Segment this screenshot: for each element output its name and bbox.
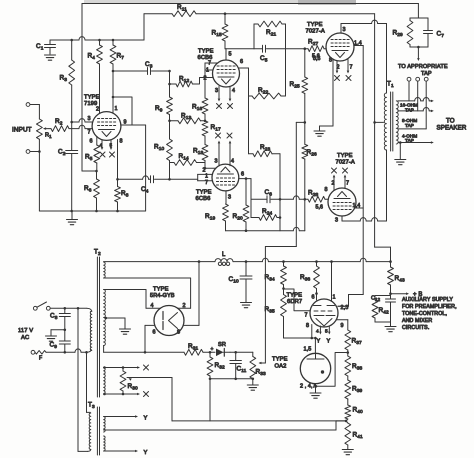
wire grid stubs 6CB6 (205, 63, 218, 98)
resistor R12 (170, 78, 214, 87)
wire feedback vertical (82, 4, 97, 172)
resistor R4 (97, 40, 103, 113)
svg-text:1: 1 (206, 68, 209, 74)
wire screen line (338, 46, 363, 307)
resistor R7 (110, 40, 116, 113)
wire screen supply rail (144, 13, 375, 15)
node feedback-cathode junction (95, 170, 98, 173)
svg-text:Y: Y (317, 339, 321, 345)
wire pin8 6DR7 (311, 325, 313, 339)
svg-text:TONE-CONTROL,: TONE-CONTROL, (402, 311, 447, 317)
resistor R13 (170, 118, 206, 124)
svg-text:7: 7 (305, 313, 308, 319)
pin 2 label (337, 65, 340, 71)
X mark (217, 104, 222, 109)
pin 1 label (333, 295, 336, 301)
heater arrows 6CB6 upper (218, 87, 232, 102)
node C11 top (234, 351, 237, 354)
wire screen pins 1 4 (354, 45, 363, 47)
label R39 (352, 386, 362, 395)
wire aux B arrow (391, 292, 410, 295)
svg-text:6: 6 (241, 172, 244, 178)
wire cathode rail (226, 227, 305, 230)
capacitor C9 (59, 330, 70, 353)
svg-text:6CB6: 6CB6 (196, 196, 211, 202)
label R33 (256, 369, 266, 378)
node C10 top (245, 260, 248, 263)
resistor R15 (222, 14, 228, 49)
svg-text:TYPE: TYPE (198, 49, 214, 55)
pin 8 label (120, 139, 123, 145)
wire hum to rail (171, 378, 173, 421)
label R34 (265, 274, 275, 283)
label pins 5 6 lower (313, 56, 321, 62)
svg-text:TAP: TAP (421, 71, 432, 77)
node R20 top (245, 177, 248, 180)
resistor R10 (167, 121, 173, 180)
svg-text:CIRCUITS.: CIRCUITS. (402, 325, 429, 331)
wire plate lower 7027 (342, 150, 387, 221)
transformer T1 secondary (396, 101, 398, 144)
svg-text:7: 7 (350, 65, 353, 71)
wire B+ vertical (375, 14, 391, 262)
pin 8 label (325, 187, 328, 193)
label SR (218, 342, 226, 348)
heater pin 5 arrow (110, 140, 113, 150)
svg-text:7: 7 (346, 181, 349, 187)
capacitor C11 (230, 352, 242, 379)
label C4 (141, 186, 149, 195)
label R8 (121, 190, 129, 199)
node R24 right (279, 216, 282, 219)
resistor R18 (202, 145, 208, 169)
pin 5 stub (225, 49, 227, 60)
wire OA2 return (316, 353, 348, 387)
transformer T2 primary (90, 311, 92, 351)
label R4 (88, 53, 96, 62)
tube V4 7027-A (326, 33, 354, 61)
node C9 bottom (64, 351, 67, 354)
pin 7 label (350, 65, 353, 71)
svg-text:3: 3 (88, 116, 91, 122)
svg-text:3: 3 (215, 159, 218, 165)
node T1 center tap (373, 121, 376, 124)
pin 4 label (232, 88, 235, 94)
node T3 feed top (77, 307, 80, 310)
resistor R3 (69, 40, 75, 122)
label TO SPEAKER (437, 117, 467, 131)
svg-text:Y: Y (144, 416, 148, 422)
resistor R24 (251, 215, 280, 221)
wire T3 mid riser merge (336, 420, 346, 422)
wire HV top to pin4 (104, 290, 161, 309)
svg-text:2: 2 (183, 303, 186, 309)
label R1 (45, 133, 52, 140)
resistor R1 potentiometer (37, 105, 43, 212)
resistor R9 (167, 71, 173, 121)
label T3 (88, 402, 95, 411)
label pins 1 4 (354, 41, 362, 47)
wire center tap (375, 121, 384, 123)
node HV center tap (105, 317, 108, 320)
label pins 5 6 (312, 54, 320, 60)
label R18 (193, 148, 203, 157)
node R12 tap (168, 83, 171, 86)
Y mark (144, 416, 148, 422)
svg-text:TYPE: TYPE (84, 95, 100, 101)
wire screen pins 1 4 lower (355, 207, 364, 209)
pin 8 label (329, 58, 332, 64)
wire R22-R23 column (248, 96, 250, 154)
pin 6 label (90, 139, 93, 145)
ground R41 (342, 450, 353, 455)
node R4 top (98, 39, 101, 42)
svg-text:8: 8 (329, 58, 332, 64)
capacitor C1 (45, 40, 56, 54)
resistor R29 (407, 18, 413, 47)
pin 1 label (206, 68, 209, 74)
node R8 top (116, 178, 119, 181)
terminal tap 3 (424, 77, 428, 129)
wire R21C5 left (253, 24, 255, 49)
wire C6 to R28 (280, 196, 305, 199)
pin 7 label (305, 313, 308, 319)
resistor R2 (49, 125, 92, 131)
resistor R35 (281, 295, 287, 339)
node R36 top (315, 260, 318, 263)
wire B+ upper rail (50, 37, 144, 40)
transformer T1 primary (384, 93, 386, 150)
pin 4 label (316, 329, 319, 335)
node R32 bottom (209, 378, 212, 381)
ground cathode (314, 131, 325, 136)
wire pin6 upper 6CB6 (238, 68, 248, 96)
wire heater bottom (104, 393, 140, 396)
resistor R17 (202, 121, 208, 145)
resistor R37 (345, 330, 351, 356)
node pin1 loop (112, 96, 115, 99)
node R18 bottom (204, 167, 207, 170)
svg-text:7: 7 (88, 130, 91, 136)
label R27 (308, 39, 318, 48)
wire bias ground rail (210, 378, 253, 380)
node R40 R41 junction (345, 420, 348, 423)
ground bias (247, 385, 258, 390)
label 16-OHM TAP (400, 103, 418, 113)
svg-text:AC: AC (21, 335, 29, 341)
ground main bus (67, 211, 78, 225)
Y mark (327, 339, 331, 345)
svg-text:6: 6 (240, 59, 243, 65)
pin 8 label (177, 330, 180, 336)
terminal tap 2 (416, 77, 420, 111)
svg-text:TYPE: TYPE (272, 357, 288, 363)
wire feedback top (82, 3, 418, 5)
label R25 (290, 81, 300, 90)
node C6 right (279, 198, 282, 201)
svg-text:7: 7 (208, 61, 211, 67)
resistor R43 (388, 262, 394, 294)
wire C4 to grid (170, 178, 198, 180)
pin 6 label (240, 59, 243, 65)
node pin8 riser (198, 260, 201, 263)
label R19 (205, 213, 215, 222)
X mark (335, 76, 340, 81)
wire B+ rail lower (233, 258, 391, 261)
label R37 (352, 338, 362, 347)
pin 4 label (100, 143, 103, 148)
label TYPE 6DR7 (287, 293, 303, 306)
resistor R36 (314, 262, 320, 300)
node C4 junction (168, 178, 171, 181)
label R41 (353, 432, 363, 441)
label AND MIXER (402, 318, 432, 324)
label R9 (155, 105, 163, 114)
pin 7 label (208, 61, 211, 67)
wiper R30 (127, 378, 172, 381)
resistor R23 (249, 151, 281, 157)
pin 7 label (346, 181, 349, 187)
svg-text:5: 5 (229, 52, 232, 58)
X mark (110, 152, 115, 157)
svg-text:L: L (222, 252, 226, 258)
wire loop extension (132, 125, 146, 211)
wire plate loop (113, 97, 132, 125)
pin 3 stub lower (341, 216, 343, 221)
node R37 R38 (347, 351, 350, 354)
transformer T1 core (391, 92, 393, 151)
label R23 (260, 144, 270, 153)
label R11 (177, 4, 187, 13)
label 8-OHM TAP (402, 118, 417, 128)
wire ground bus (39, 210, 145, 212)
svg-text:1: 1 (205, 174, 208, 180)
node T3 feed bottom (85, 351, 88, 354)
node R13 left (168, 120, 171, 123)
node R28 left (304, 198, 307, 201)
resistor R26 (302, 144, 308, 199)
resistor R14 (170, 160, 206, 166)
Y mark (144, 450, 148, 456)
wiper arrow R33 (259, 362, 266, 365)
wire 5V top to L (104, 261, 215, 263)
wire cathode stub (96, 136, 98, 145)
wire pin8 (117, 140, 119, 180)
label R40 (353, 407, 363, 416)
heater pin 4 arrow (101, 140, 104, 150)
wire R29C7 bottom (410, 46, 428, 61)
label TYPE 6CB6 (198, 49, 214, 62)
label R26 (307, 149, 317, 158)
wire 8 ohm tap (398, 108, 434, 113)
svg-text:1: 1 (115, 106, 118, 112)
wire R21C5 right (285, 24, 287, 96)
wire pin8 to B+ (183, 262, 199, 326)
transformer T2 6.3V winding (104, 368, 106, 395)
node C11 bottom (234, 378, 237, 381)
transformer T3 secondary 2 (104, 436, 106, 451)
resistor R30 (120, 368, 126, 395)
svg-text:Y: Y (144, 450, 148, 456)
wire grid 6DR7 (284, 289, 311, 311)
wire pin6 lower 6CB6 (239, 179, 251, 218)
label C11 (237, 366, 247, 375)
wire T3 primary bottom feed (78, 308, 91, 451)
transformer T3 primary (89, 413, 91, 450)
ground HV center tap (120, 329, 131, 334)
pin 3 stub (340, 24, 342, 34)
node R32 top (209, 351, 212, 354)
label R13 (181, 113, 191, 122)
label TO APPROPRIATE TAP (398, 64, 448, 77)
wire to grid (205, 167, 216, 169)
wire B+ rail riser (143, 14, 145, 40)
svg-text:8: 8 (306, 323, 309, 329)
label R7 (117, 53, 125, 62)
svg-text:TO: TO (446, 117, 455, 124)
resistor R5 (94, 145, 100, 171)
node R8 bottom (116, 210, 119, 213)
node aux B junction (389, 292, 392, 295)
pin 9 label (341, 323, 344, 329)
pin 8 label (306, 323, 309, 329)
resistor R34 (281, 262, 287, 295)
label pins 1 4 (353, 203, 361, 209)
wire bias winding (104, 346, 145, 353)
svg-text:TYPE: TYPE (307, 22, 323, 28)
wire secondary ground (399, 143, 401, 160)
svg-text:TYPE: TYPE (153, 287, 169, 293)
svg-text:TAP: TAP (405, 108, 414, 113)
label R2 (55, 118, 63, 127)
capacitor C4 (118, 176, 170, 183)
svg-text:4: 4 (151, 303, 154, 309)
resistor R40 (345, 405, 351, 421)
inductor L (215, 259, 233, 266)
wire AC top leg (50, 308, 92, 311)
node R30 top (103, 366, 124, 369)
label plus B (413, 292, 422, 298)
label R29 (393, 30, 403, 39)
label AUXILIARY SUPPLY (402, 297, 453, 303)
transformer T3 core (97, 407, 99, 455)
transformer T2 core (97, 257, 99, 397)
node R30 bottom (103, 393, 124, 396)
X mark (343, 168, 348, 173)
node R15 tap (224, 12, 227, 15)
tube V2 6CB6 (213, 60, 240, 87)
wire line bypass ground (51, 330, 65, 336)
svg-text:6DR7: 6DR7 (287, 299, 302, 305)
wire grid pin3 (72, 119, 93, 122)
node pin6 6DR7 (315, 292, 318, 295)
tube V7 6DR7 (310, 299, 338, 327)
wire R3 to C2 (71, 122, 73, 150)
svg-text:2: 2 (96, 107, 99, 113)
resistor R28 (305, 196, 329, 202)
label R22 (258, 87, 268, 96)
label C8 (50, 313, 58, 322)
ground aux (385, 327, 396, 332)
X mark (144, 392, 149, 397)
label R32 (215, 362, 225, 371)
label pins 2 4 7 (300, 384, 316, 390)
wire T3 primary top feed (87, 352, 91, 412)
input jack upper (26, 103, 39, 107)
capacitor C5 (254, 45, 286, 52)
node 6DR7 plate feed (330, 260, 333, 263)
svg-text:7027-A: 7027-A (306, 29, 325, 35)
svg-text:3: 3 (343, 27, 346, 33)
wire HV center tap ground (106, 318, 125, 329)
pin 1 label (115, 106, 118, 112)
label TYPE 6CB6 (196, 190, 212, 203)
wire R32 to hum rail (209, 379, 211, 421)
label R3 (60, 75, 68, 84)
capacitor C2 (66, 151, 78, 212)
node bus C2 (70, 210, 73, 213)
label R17 (211, 124, 221, 133)
label C9 (50, 342, 58, 351)
node B+ entry (389, 260, 392, 263)
svg-text:R1: R1 (45, 133, 52, 140)
node C8 C9 mid (64, 329, 67, 332)
resistor R16 (202, 98, 208, 121)
X mark (228, 104, 233, 109)
svg-text:8: 8 (120, 139, 123, 145)
wire 16 ohm tap (398, 98, 434, 103)
label R24 (262, 208, 272, 217)
wire R26 to rail (304, 199, 306, 230)
tube V5 7027-A (328, 188, 356, 216)
svg-text:2: 2 (204, 76, 207, 82)
label R38 (352, 363, 362, 372)
label TYPE 7027-A (336, 153, 355, 166)
svg-text:C12: C12 (371, 296, 381, 303)
wire T3 tap mid (104, 421, 336, 430)
label R6 (84, 185, 92, 194)
wire SR to R33 (230, 351, 253, 353)
ground OA2 (310, 393, 321, 398)
wire pin9 6DR7 (337, 320, 348, 330)
node R9 top (168, 70, 171, 73)
svg-text:5R4-GYB: 5R4-GYB (150, 293, 175, 299)
label C1 (36, 43, 44, 52)
resistor R33 potentiometer (250, 352, 256, 379)
X mark (216, 133, 221, 138)
wire pin5 to C5 (225, 48, 254, 50)
svg-text:FOR PREAMPLIFIER,: FOR PREAMPLIFIER, (402, 304, 457, 310)
X mark (100, 152, 105, 157)
wire R33 ground stem (252, 379, 254, 385)
label TYPE 5R4-GYB (150, 287, 175, 300)
svg-text:1: 1 (333, 295, 336, 301)
rectifier SR (216, 349, 230, 357)
wire OA2 bottom (315, 384, 317, 393)
node OA2 top (314, 337, 317, 340)
transformer T3 secondary 1 (104, 417, 106, 433)
svg-text:8: 8 (325, 187, 328, 193)
pin 5 label (110, 143, 113, 148)
scan artifact gray band (84, 0, 356, 5)
transformer T2 5V winding (104, 262, 106, 278)
pin 6 label (312, 295, 315, 301)
svg-text:OA2: OA2 (275, 364, 287, 370)
label R35 (265, 306, 275, 315)
wire cathode upper 7027 (320, 59, 334, 130)
svg-text:3: 3 (215, 88, 218, 94)
svg-text:8: 8 (177, 330, 180, 336)
